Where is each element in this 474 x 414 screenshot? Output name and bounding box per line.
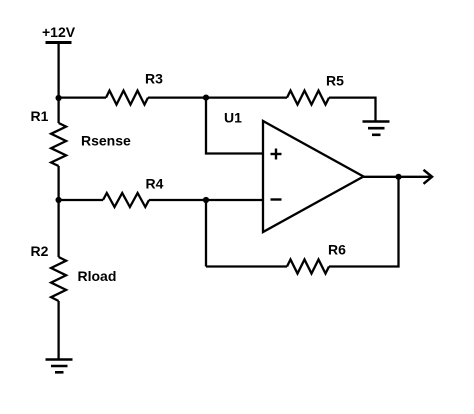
op-amp plus input symbol (271, 149, 282, 160)
svg-text:R3: R3 (145, 71, 163, 87)
wire: node C down to feedback row (205, 200, 207, 267)
op-amp minus input symbol (271, 198, 282, 200)
wire: feedback row right segment up to output node (329, 177, 399, 267)
wire: R3 to node X (148, 96, 206, 98)
wire: node B to R2 top (57, 200, 59, 257)
output arrowhead (424, 170, 433, 184)
wire: node A to R3 (59, 96, 106, 98)
wire: node X down to noninverting input (206, 98, 263, 154)
wire: node A to R1 top (57, 98, 59, 123)
wire: R2 bottom to ground (57, 301, 59, 360)
svg-text:R4: R4 (146, 176, 164, 192)
wire: node X to R5 (206, 96, 287, 98)
svg-text:R1: R1 (31, 108, 49, 124)
output node junction dot (395, 174, 401, 180)
resistor R4 body (103, 193, 149, 207)
wire: R1 bottom to node B (57, 166, 59, 200)
node X junction dot (203, 95, 209, 101)
resistor R2 (Rload) body (51, 257, 66, 301)
svg-text:R5: R5 (326, 73, 344, 89)
wire: R4 to inverting input (149, 199, 263, 201)
ground (bottom left) (46, 360, 73, 373)
svg-text:Rload: Rload (78, 268, 117, 284)
resistor R5 body (287, 91, 329, 105)
node A junction dot (56, 95, 62, 101)
svg-text:U1: U1 (224, 110, 242, 126)
wire: node B to R4 (59, 199, 103, 201)
power rail +12V bar (46, 41, 72, 44)
node C junction dot (203, 197, 209, 203)
svg-text:+12V: +12V (42, 24, 76, 40)
wire: feedback row left segment (206, 265, 287, 267)
node B junction dot (56, 197, 62, 203)
op-amp U1 triangle (263, 121, 364, 232)
wire: R5 to right ground corner (329, 98, 376, 121)
svg-text:R2: R2 (31, 243, 49, 259)
ground (right) (363, 122, 390, 135)
resistor R6 body (287, 260, 329, 274)
svg-text:R6: R6 (328, 242, 346, 258)
wire: op-amp output (364, 176, 431, 178)
wire: +12V bar to node A (57, 43, 59, 99)
resistor R1 (Rsense) body (51, 123, 66, 166)
resistor R3 body (106, 91, 148, 105)
svg-text:Rsense: Rsense (81, 133, 131, 149)
